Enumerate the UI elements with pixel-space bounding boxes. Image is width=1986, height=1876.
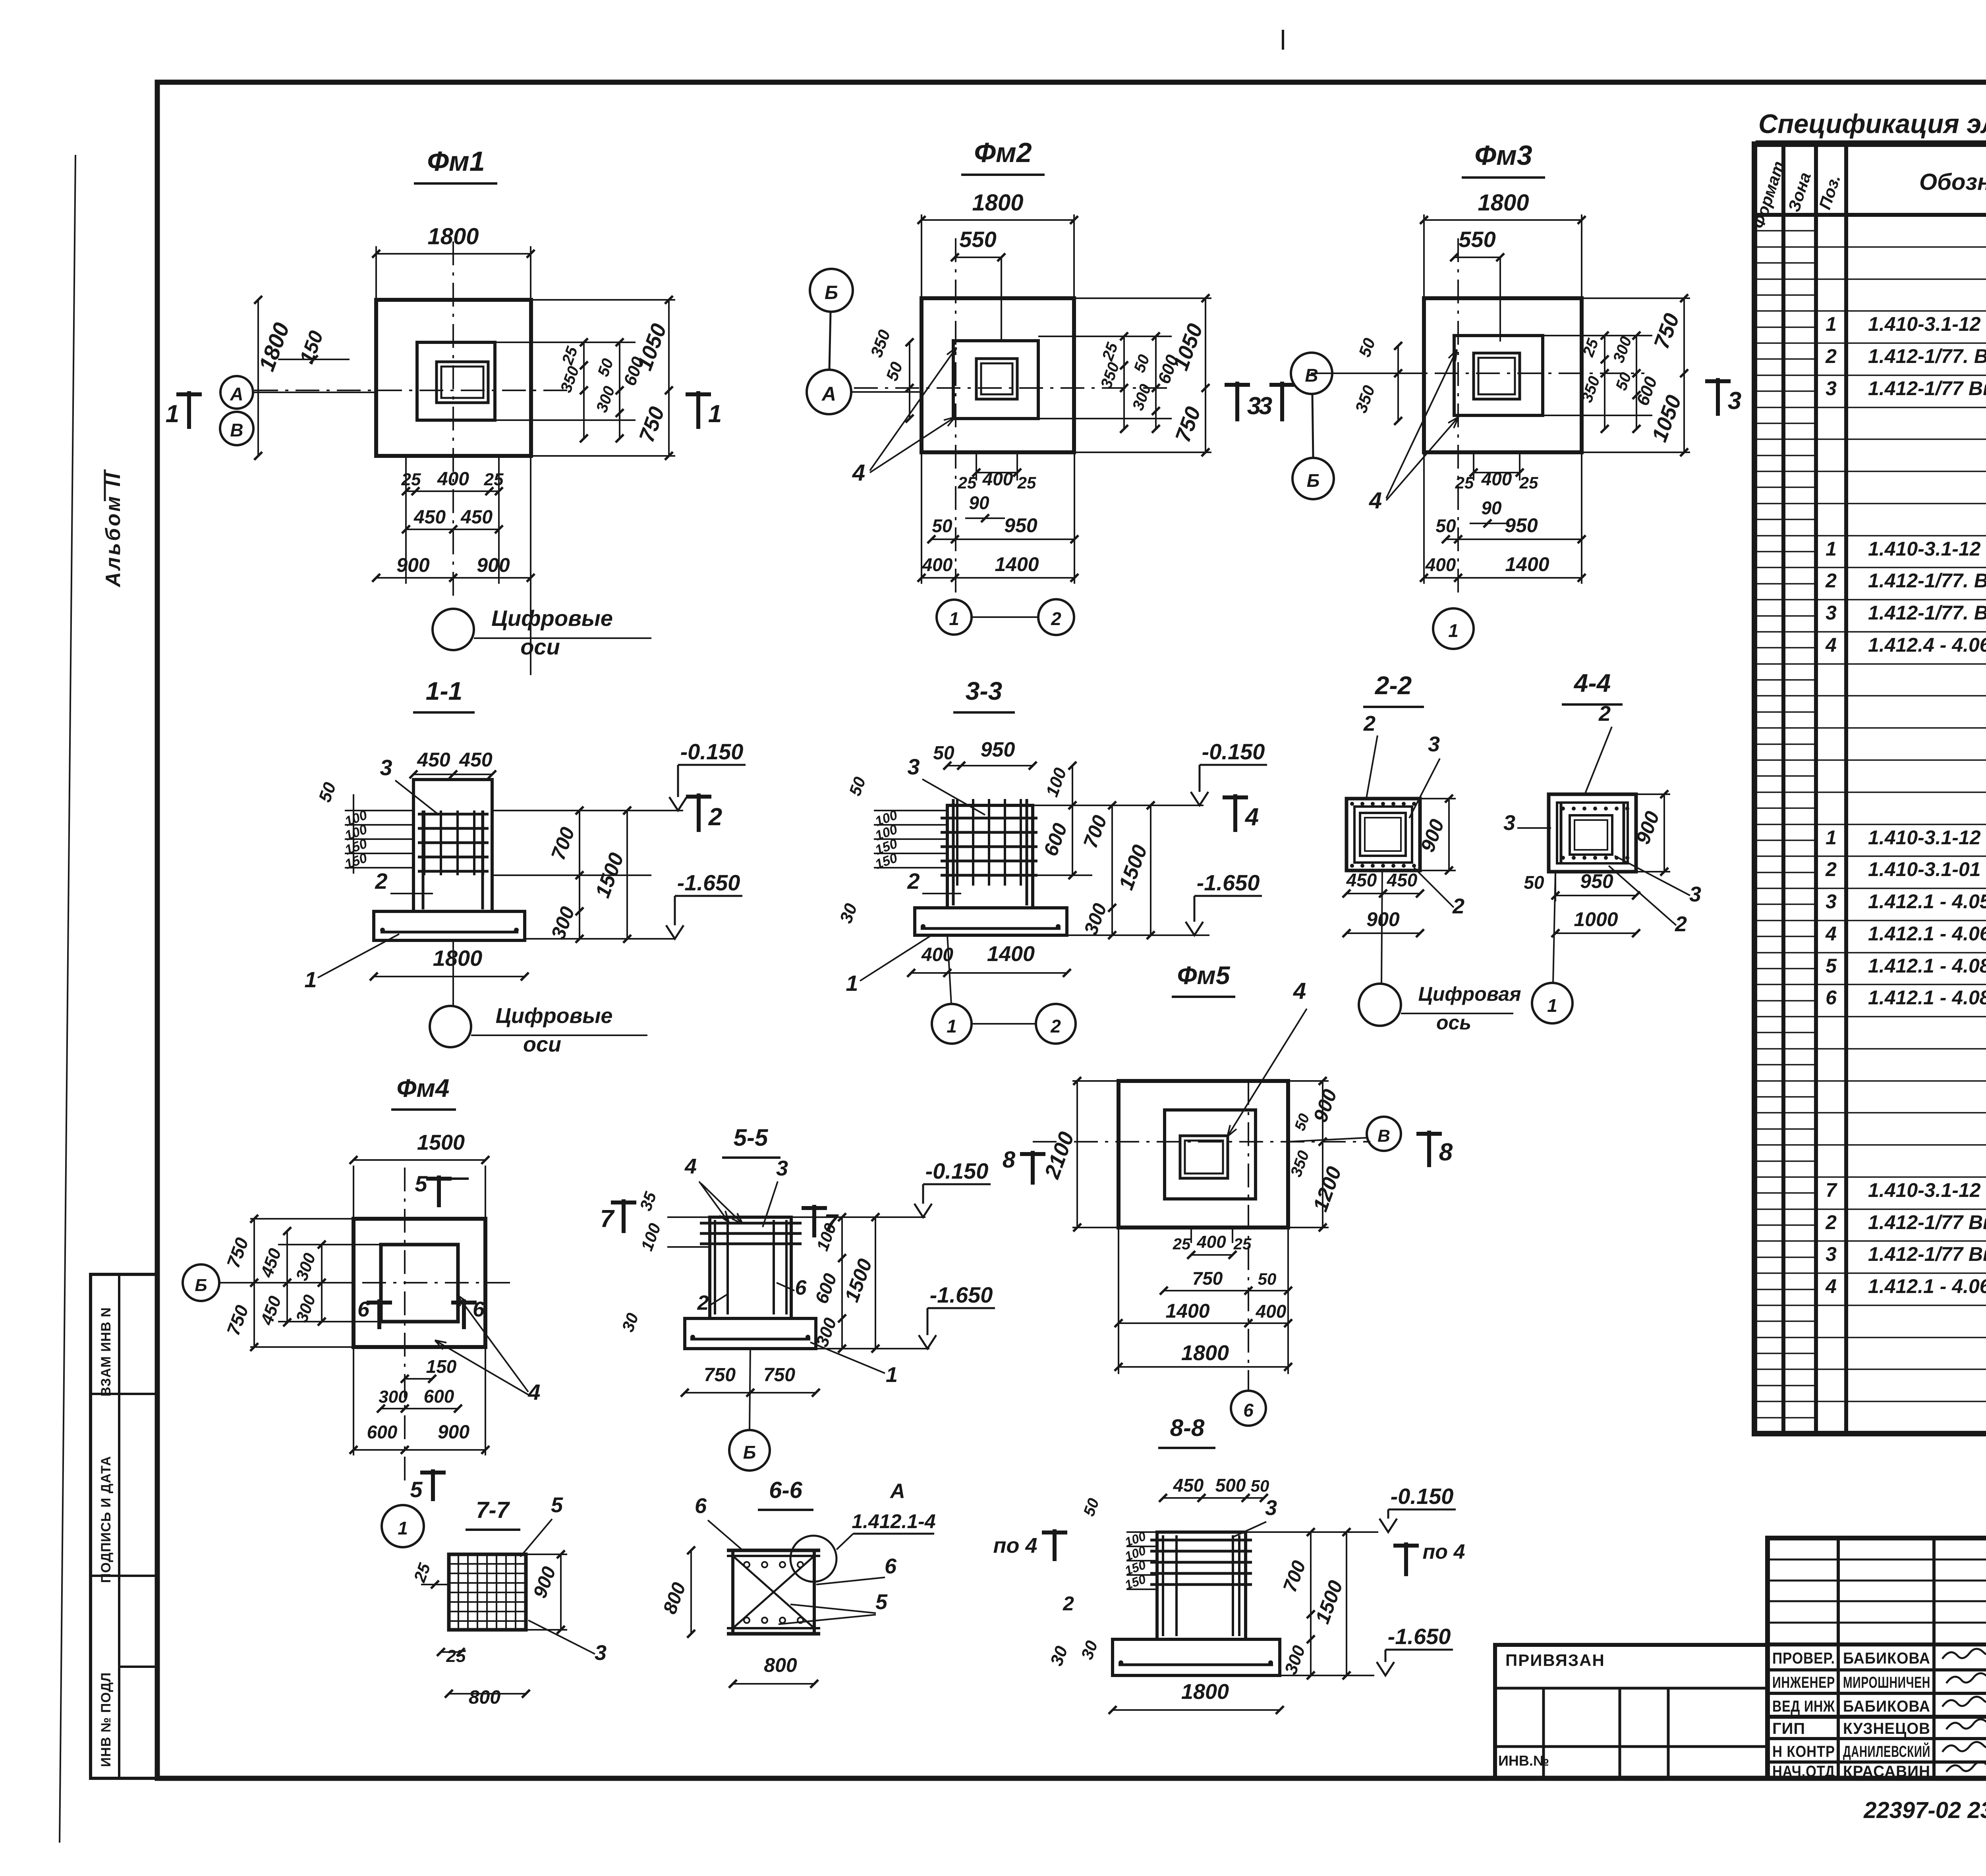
svg-text:500: 500 bbox=[1215, 1475, 1246, 1496]
svg-text:1-1: 1-1 bbox=[426, 677, 463, 705]
svg-text:3: 3 bbox=[1826, 890, 1837, 913]
svg-text:900: 900 bbox=[438, 1422, 469, 1443]
svg-text:1: 1 bbox=[708, 400, 722, 428]
svg-text:В: В bbox=[1377, 1126, 1390, 1146]
svg-text:-1.650: -1.650 bbox=[930, 1282, 993, 1307]
svg-text:1.412-1/77 Вып.3: 1.412-1/77 Вып.3 bbox=[1868, 1243, 1986, 1265]
svg-text:А: А bbox=[889, 1480, 905, 1503]
svg-text:ИНВ.№: ИНВ.№ bbox=[1498, 1752, 1549, 1769]
svg-text:1.410-3.1-01: 1.410-3.1-01 bbox=[1868, 858, 1981, 880]
svg-text:50: 50 bbox=[1258, 1270, 1277, 1288]
svg-text:2: 2 bbox=[1825, 345, 1837, 367]
svg-text:6: 6 bbox=[695, 1494, 707, 1518]
svg-text:3: 3 bbox=[907, 754, 920, 779]
svg-text:1400: 1400 bbox=[1165, 1300, 1209, 1322]
svg-text:4: 4 bbox=[1369, 488, 1382, 513]
svg-text:Фм4: Фм4 bbox=[397, 1074, 450, 1102]
svg-text:25: 25 bbox=[1455, 473, 1474, 492]
svg-text:Б: Б bbox=[743, 1442, 756, 1463]
svg-text:5: 5 bbox=[1826, 955, 1837, 977]
svg-text:2: 2 bbox=[1452, 894, 1464, 918]
svg-text:1.412.4 - 4.060: 1.412.4 - 4.060 bbox=[1868, 634, 1986, 656]
svg-text:50: 50 bbox=[1524, 872, 1544, 893]
svg-text:1: 1 bbox=[398, 1518, 408, 1538]
svg-text:400: 400 bbox=[437, 469, 469, 490]
svg-text:400: 400 bbox=[1481, 469, 1512, 489]
svg-text:по 4: по 4 bbox=[1423, 1540, 1465, 1563]
svg-text:2: 2 bbox=[1675, 912, 1687, 936]
svg-text:450: 450 bbox=[459, 749, 493, 771]
svg-text:2: 2 bbox=[1363, 712, 1376, 735]
svg-text:2: 2 bbox=[1825, 1211, 1837, 1233]
svg-text:Фм5: Фм5 bbox=[1177, 961, 1231, 990]
svg-text:1.412.1 - 4.060: 1.412.1 - 4.060 bbox=[1868, 923, 1986, 945]
svg-text:1: 1 bbox=[886, 1363, 898, 1387]
svg-text:КРАСАВИН: КРАСАВИН bbox=[1843, 1763, 1930, 1780]
svg-text:450: 450 bbox=[417, 749, 450, 771]
svg-text:ПРИВЯЗАН: ПРИВЯЗАН bbox=[1505, 1651, 1605, 1669]
svg-text:50: 50 bbox=[1435, 515, 1456, 536]
svg-text:2: 2 bbox=[907, 869, 920, 894]
svg-text:1.410-3.1-12: 1.410-3.1-12 bbox=[1868, 826, 1981, 849]
svg-text:550: 550 bbox=[959, 227, 996, 252]
svg-text:-0.150: -0.150 bbox=[1391, 1484, 1454, 1509]
svg-text:1.410-3.1-12: 1.410-3.1-12 bbox=[1868, 538, 1981, 560]
svg-text:1: 1 bbox=[1547, 995, 1557, 1016]
svg-text:2: 2 bbox=[1050, 1016, 1061, 1036]
svg-text:Цифровые: Цифровые bbox=[491, 606, 613, 631]
svg-text:2-2: 2-2 bbox=[1375, 671, 1412, 700]
svg-text:950: 950 bbox=[981, 738, 1015, 761]
svg-text:3: 3 bbox=[1259, 392, 1272, 420]
svg-text:-1.650: -1.650 bbox=[1197, 870, 1260, 895]
svg-text:6-6: 6-6 bbox=[769, 1477, 803, 1503]
svg-text:25: 25 bbox=[958, 473, 977, 492]
svg-text:ПОДПИСЬ И ДАТА: ПОДПИСЬ И ДАТА bbox=[99, 1456, 114, 1583]
svg-text:1: 1 bbox=[1826, 313, 1837, 335]
svg-text:25: 25 bbox=[1519, 473, 1538, 492]
svg-text:400: 400 bbox=[1425, 554, 1456, 575]
svg-text:5: 5 bbox=[875, 1590, 888, 1614]
svg-text:8-8: 8-8 bbox=[1170, 1415, 1205, 1441]
svg-text:3: 3 bbox=[1265, 1496, 1277, 1520]
svg-text:900: 900 bbox=[1366, 908, 1400, 930]
svg-text:1800: 1800 bbox=[1181, 1680, 1229, 1704]
svg-text:50: 50 bbox=[1251, 1476, 1269, 1495]
svg-text:А: А bbox=[821, 383, 836, 405]
svg-text:3: 3 bbox=[1826, 602, 1837, 624]
svg-text:1.412-1/77. Вып.3: 1.412-1/77. Вып.3 bbox=[1868, 345, 1986, 367]
svg-text:1: 1 bbox=[947, 1016, 957, 1036]
svg-text:Фм3: Фм3 bbox=[1474, 140, 1532, 171]
svg-text:6: 6 bbox=[1243, 1400, 1254, 1421]
svg-text:1.412.1 - 4.050: 1.412.1 - 4.050 bbox=[1868, 890, 1986, 913]
svg-text:1.410-3.1-12: 1.410-3.1-12 bbox=[1868, 313, 1981, 335]
svg-text:4: 4 bbox=[1244, 803, 1259, 831]
svg-text:90: 90 bbox=[1481, 498, 1502, 518]
svg-text:450: 450 bbox=[1346, 870, 1377, 890]
svg-text:ПРОВЕР.: ПРОВЕР. bbox=[1772, 1650, 1835, 1667]
svg-text:5: 5 bbox=[551, 1493, 563, 1517]
svg-text:800: 800 bbox=[469, 1687, 500, 1708]
svg-text:-0.150: -0.150 bbox=[1202, 739, 1265, 764]
svg-text:300: 300 bbox=[379, 1387, 408, 1407]
svg-text:25: 25 bbox=[401, 470, 421, 489]
svg-text:1: 1 bbox=[166, 400, 179, 428]
svg-text:3: 3 bbox=[1728, 387, 1741, 415]
svg-text:22397-02 23: 22397-02 23 bbox=[1863, 1797, 1986, 1823]
svg-text:ось: ось bbox=[1436, 1011, 1471, 1034]
svg-text:1800: 1800 bbox=[427, 224, 479, 249]
svg-text:2: 2 bbox=[1825, 569, 1837, 592]
svg-text:450: 450 bbox=[460, 507, 493, 528]
svg-text:450: 450 bbox=[1173, 1475, 1204, 1496]
svg-text:3: 3 bbox=[1689, 882, 1701, 906]
svg-text:400: 400 bbox=[1256, 1301, 1287, 1322]
svg-text:1.412.1 - 4.080: 1.412.1 - 4.080 bbox=[1868, 986, 1986, 1009]
svg-text:В: В bbox=[230, 420, 243, 440]
svg-text:600: 600 bbox=[424, 1386, 454, 1407]
svg-text:1800: 1800 bbox=[1181, 1341, 1229, 1365]
svg-text:600: 600 bbox=[367, 1422, 398, 1442]
svg-text:3-3: 3-3 bbox=[966, 677, 1003, 705]
svg-text:950: 950 bbox=[1580, 870, 1613, 892]
svg-text:8: 8 bbox=[1003, 1147, 1016, 1173]
svg-text:КУЗНЕЦОВ: КУЗНЕЦОВ bbox=[1843, 1720, 1930, 1737]
svg-text:1: 1 bbox=[304, 967, 317, 992]
svg-text:4: 4 bbox=[684, 1154, 697, 1178]
svg-text:550: 550 bbox=[1459, 227, 1495, 252]
svg-text:4: 4 bbox=[1825, 634, 1837, 656]
svg-text:Б: Б bbox=[825, 282, 838, 303]
svg-text:оси: оси bbox=[520, 634, 560, 659]
svg-text:1.412-1/77 Вып.3: 1.412-1/77 Вып.3 bbox=[1868, 1211, 1986, 1233]
svg-text:4-4: 4-4 bbox=[1573, 669, 1611, 697]
svg-text:7: 7 bbox=[600, 1205, 615, 1233]
svg-text:ВЕД ИНЖ: ВЕД ИНЖ bbox=[1772, 1698, 1835, 1715]
svg-text:950: 950 bbox=[1505, 514, 1538, 537]
svg-text:Цифровые: Цифровые bbox=[496, 1004, 613, 1028]
svg-text:2: 2 bbox=[697, 1291, 709, 1314]
svg-text:900: 900 bbox=[396, 554, 430, 576]
svg-text:3: 3 bbox=[776, 1156, 788, 1180]
svg-text:БАБИКОВА: БАБИКОВА bbox=[1843, 1698, 1930, 1715]
svg-text:400: 400 bbox=[1196, 1232, 1226, 1252]
svg-text:3: 3 bbox=[1826, 1243, 1837, 1265]
svg-text:ИНЖЕНЕР: ИНЖЕНЕР bbox=[1772, 1674, 1835, 1691]
svg-text:6: 6 bbox=[795, 1276, 807, 1299]
svg-text:2: 2 bbox=[375, 869, 387, 894]
svg-text:400: 400 bbox=[982, 469, 1013, 489]
svg-text:Фм2: Фм2 bbox=[974, 137, 1032, 168]
svg-text:25: 25 bbox=[484, 470, 504, 489]
svg-text:150: 150 bbox=[426, 1356, 457, 1377]
svg-text:ИНВ № ПОДЛ: ИНВ № ПОДЛ bbox=[99, 1672, 114, 1767]
svg-text:3: 3 bbox=[380, 755, 392, 780]
svg-text:БАБИКОВА: БАБИКОВА bbox=[1843, 1650, 1930, 1667]
svg-text:25: 25 bbox=[1017, 473, 1036, 492]
svg-text:1000: 1000 bbox=[1574, 908, 1618, 930]
svg-text:1400: 1400 bbox=[1505, 553, 1549, 575]
svg-text:Спецификация элементов монол: Спецификация элементов монолитных фундам… bbox=[1758, 109, 1986, 139]
svg-text:6: 6 bbox=[885, 1554, 897, 1578]
svg-text:Обозначение: Обозначение bbox=[1919, 169, 1986, 195]
svg-text:5: 5 bbox=[415, 1171, 427, 1196]
svg-text:ДАНИЛЕВСКИЙ: ДАНИЛЕВСКИЙ bbox=[1843, 1742, 1930, 1760]
svg-text:4: 4 bbox=[1825, 1275, 1837, 1297]
svg-text:по 4: по 4 bbox=[993, 1534, 1037, 1558]
svg-text:1.412-1/77 Вып.3: 1.412-1/77 Вып.3 bbox=[1868, 377, 1986, 400]
svg-text:4: 4 bbox=[852, 460, 865, 486]
svg-text:-0.150: -0.150 bbox=[680, 739, 744, 764]
svg-text:1500: 1500 bbox=[417, 1131, 465, 1154]
svg-text:МИРОШНИЧЕН: МИРОШНИЧЕН bbox=[1843, 1674, 1930, 1691]
svg-text:7: 7 bbox=[1826, 1179, 1837, 1201]
svg-text:6: 6 bbox=[1826, 986, 1837, 1009]
svg-text:Б: Б bbox=[195, 1276, 207, 1295]
svg-text:2: 2 bbox=[1051, 608, 1061, 629]
svg-text:7-7: 7-7 bbox=[476, 1497, 510, 1523]
svg-text:1400: 1400 bbox=[987, 942, 1035, 966]
svg-text:1.412.1-4: 1.412.1-4 bbox=[852, 1510, 935, 1532]
svg-text:4: 4 bbox=[1825, 923, 1837, 945]
svg-text:2: 2 bbox=[1825, 858, 1837, 880]
svg-text:1.412.1 - 4.080: 1.412.1 - 4.080 bbox=[1868, 955, 1986, 977]
svg-text:50: 50 bbox=[933, 743, 954, 764]
svg-text:1: 1 bbox=[1448, 620, 1459, 641]
svg-text:4: 4 bbox=[527, 1380, 540, 1405]
svg-text:1800: 1800 bbox=[433, 946, 483, 971]
svg-text:1400: 1400 bbox=[995, 553, 1039, 575]
svg-text:-0.150: -0.150 bbox=[925, 1158, 989, 1183]
svg-text:НАЧ.ОТД: НАЧ.ОТД bbox=[1772, 1763, 1835, 1780]
svg-text:-1.650: -1.650 bbox=[1388, 1624, 1451, 1649]
svg-text:3: 3 bbox=[1428, 732, 1440, 756]
svg-text:50: 50 bbox=[932, 515, 952, 536]
svg-text:450: 450 bbox=[1387, 870, 1418, 890]
svg-text:оси: оси bbox=[523, 1033, 561, 1056]
svg-text:1: 1 bbox=[1826, 826, 1837, 849]
svg-text:25: 25 bbox=[1173, 1235, 1191, 1253]
svg-text:Фм1: Фм1 bbox=[427, 146, 485, 177]
svg-text:400: 400 bbox=[922, 554, 953, 575]
svg-text:2: 2 bbox=[1063, 1592, 1074, 1615]
svg-text:450: 450 bbox=[413, 507, 446, 528]
svg-text:750: 750 bbox=[704, 1365, 736, 1386]
svg-text:4: 4 bbox=[1293, 978, 1306, 1004]
svg-text:-1.650: -1.650 bbox=[677, 870, 740, 895]
svg-text:800: 800 bbox=[764, 1654, 797, 1676]
svg-text:1.412-1/77. Вып.3: 1.412-1/77. Вып.3 bbox=[1868, 602, 1986, 624]
svg-text:900: 900 bbox=[477, 554, 510, 576]
svg-text:А: А bbox=[230, 384, 243, 404]
svg-text:750: 750 bbox=[1192, 1268, 1223, 1289]
svg-text:950: 950 bbox=[1004, 514, 1037, 537]
svg-text:25: 25 bbox=[1233, 1235, 1252, 1253]
svg-text:750: 750 bbox=[763, 1365, 795, 1386]
svg-text:ВЗАМ ИНВ N: ВЗАМ ИНВ N bbox=[99, 1307, 114, 1396]
svg-text:1.412-1/77. Вып.3: 1.412-1/77. Вып.3 bbox=[1868, 569, 1986, 592]
svg-text:3: 3 bbox=[595, 1641, 607, 1665]
svg-text:В: В bbox=[1305, 365, 1318, 386]
svg-text:1: 1 bbox=[846, 971, 858, 996]
svg-text:5: 5 bbox=[410, 1477, 423, 1502]
svg-text:3: 3 bbox=[1826, 377, 1837, 400]
svg-text:3: 3 bbox=[1503, 811, 1515, 835]
svg-text:1: 1 bbox=[1826, 538, 1837, 560]
svg-text:8: 8 bbox=[1439, 1139, 1453, 1166]
svg-text:2: 2 bbox=[708, 803, 722, 831]
svg-text:5-5: 5-5 bbox=[734, 1124, 769, 1151]
svg-text:1.412.1 - 4.060: 1.412.1 - 4.060 bbox=[1868, 1275, 1986, 1297]
svg-text:Б: Б bbox=[1307, 470, 1320, 491]
svg-text:1800: 1800 bbox=[972, 190, 1023, 216]
svg-text:ГИП: ГИП bbox=[1772, 1720, 1805, 1737]
svg-text:2: 2 bbox=[1598, 702, 1611, 726]
svg-text:1.410-3.1-12: 1.410-3.1-12 bbox=[1868, 1179, 1981, 1201]
svg-text:1: 1 bbox=[949, 608, 959, 629]
svg-text:90: 90 bbox=[969, 492, 989, 513]
svg-text:1800: 1800 bbox=[1478, 190, 1529, 216]
svg-text:Н КОНТР: Н КОНТР bbox=[1772, 1743, 1835, 1760]
svg-text:Цифровая: Цифровая bbox=[1418, 983, 1521, 1005]
